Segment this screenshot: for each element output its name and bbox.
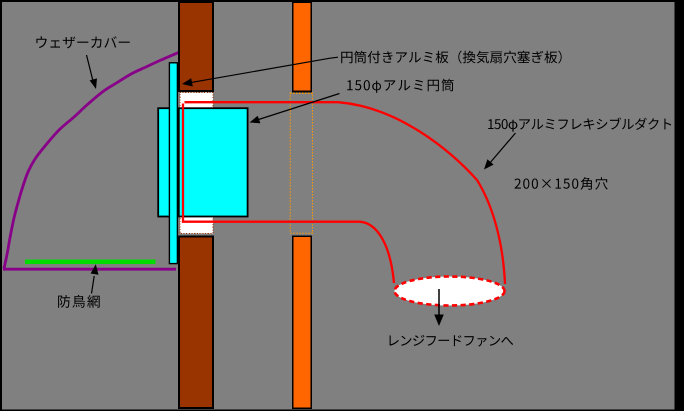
leader arrow: plate label [190, 57, 338, 82]
label: 200x150 hole text [515, 177, 608, 190]
outer wall lower segment [179, 237, 213, 409]
inner wall lower segment [293, 236, 312, 408]
arrow: to range hood fan [438, 289, 440, 315]
200x150 hole dashed outline [290, 93, 312, 233]
leader arrow: weather cover [87, 55, 94, 83]
cylinder outside stub [158, 108, 176, 216]
label: plate with cylinder text [341, 51, 562, 64]
weather cover bottom purple line [3, 268, 176, 271]
outer wall upper segment [179, 2, 213, 91]
label: weather cover text [36, 36, 129, 48]
inner wall upper segment [293, 2, 312, 92]
flexible duct lower red line [183, 104, 394, 284]
leader arrow: bird net label [92, 276, 95, 294]
fan hole in outer wall (white, dotted brown outline) [180, 92, 213, 233]
bird net green line [25, 259, 156, 264]
label: 150 flexible duct text [488, 118, 671, 132]
frame left [0, 0, 2, 411]
aluminium plate bar [169, 63, 177, 264]
label: to range hood fan text [390, 335, 514, 347]
frame bottom [0, 409, 684, 411]
frame right [675, 0, 684, 411]
duct mouth ellipse [395, 277, 505, 306]
leader arrow: flexible duct label [489, 133, 516, 164]
flexible duct upper red line [185, 102, 506, 284]
frame top [0, 0, 684, 2]
weather cover purple curve [4, 53, 179, 269]
label: bird net text [58, 295, 100, 308]
label: 150 aluminium cylinder text [347, 79, 454, 93]
aluminium cylinder (inside wall) [179, 108, 248, 216]
leader arrow: cylinder label [257, 94, 340, 121]
